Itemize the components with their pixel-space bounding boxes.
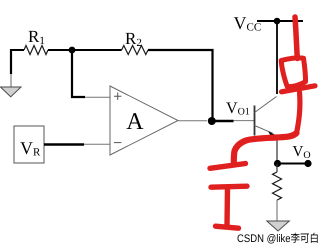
node VCC junction dot (274, 18, 281, 25)
wire + input lead (85, 96, 110, 98)
ground (left) (1, 87, 22, 97)
red annotation: ground bar (216, 226, 239, 228)
red annotation: capacitor top plate (210, 164, 246, 169)
wire left branch down to ground (10, 49, 12, 74)
voltage source VR box (14, 126, 44, 163)
wire VO node to terminal (278, 163, 309, 165)
svg-text:R1: R1 (28, 27, 45, 47)
wire R1 left lead (11, 49, 24, 51)
svg-text:VCC: VCC (234, 13, 262, 34)
wire base lead (234, 120, 255, 122)
VO terminal dot (304, 160, 311, 167)
svg-text:VO1: VO1 (226, 100, 250, 118)
svg-text:A: A (126, 109, 144, 135)
node VO junction dot (274, 160, 281, 167)
wire emitter resistor top lead (276, 164, 278, 173)
svg-text:CSDN @like李可白: CSDN @like李可白 (237, 232, 319, 245)
red annotation: capacitor bottom lead (224, 188, 230, 227)
wire ground lead (10, 74, 12, 87)
ground (right) (267, 221, 290, 231)
red annotation: diode triangle loop (281, 58, 305, 87)
red annotation: diode cathode bar (282, 86, 316, 92)
wire collector up to VCC (276, 21, 278, 94)
transistor Q1 collector diagonal (255, 97, 277, 113)
resistor R2 (122, 46, 148, 55)
wire R1 right to node A (48, 49, 122, 51)
node VO1 junction dot (208, 117, 216, 125)
resistor R1 (24, 46, 48, 55)
wire op-amp output lead (178, 120, 207, 122)
svg-text:VO: VO (293, 144, 311, 161)
op-amp U1 (110, 86, 178, 155)
transistor Q1 emitter diagonal with arrow (255, 126, 273, 134)
red annotation: diode bottom lead (297, 92, 300, 133)
wire output node to base (212, 120, 234, 123)
wire - input lead (84, 143, 110, 145)
wire emitter down (276, 135, 278, 164)
red annotation: diode top lead (295, 17, 297, 59)
wire resistor bottom lead (276, 200, 278, 221)
node A junction dot (69, 47, 76, 54)
wire VR to op-amp - input (44, 143, 84, 145)
red annotation: wire curving left to capacitor (234, 133, 297, 162)
transistor Q1 base bar (254, 106, 256, 136)
wire VCC rail (257, 20, 303, 22)
wire R2 right to feedback corner and down to output node (148, 50, 213, 121)
resistor RE (emitter) (273, 172, 282, 200)
op-amp + pin mark (114, 93, 121, 100)
wire node A down to op-amp + input (72, 50, 85, 97)
red annotation: capacitor bottom plate (211, 186, 247, 187)
op-amp - pin mark (114, 142, 121, 144)
